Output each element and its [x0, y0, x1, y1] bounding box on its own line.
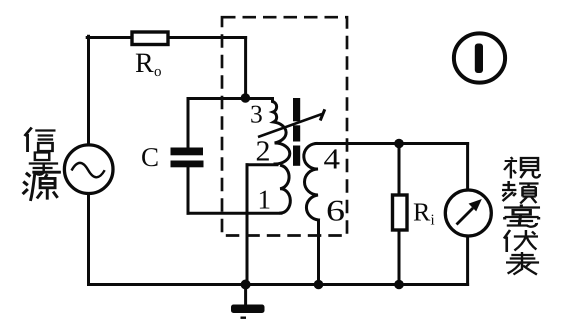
svg-text:R: R	[413, 198, 431, 227]
meter needle arrowhead	[469, 199, 482, 211]
label 频 (pin)	[502, 181, 539, 204]
transformer primary winding upper section (terminals 3 to 2)	[273, 99, 290, 165]
capacitor C top plate	[171, 148, 204, 156]
wire: tap 2 vertical down to ground node	[246, 165, 249, 285]
wire: node A horizontal (C top to primary coil top, terminal 3)	[188, 97, 273, 100]
adjustable core arrow with end bar	[258, 114, 322, 137]
svg-text:3: 3	[250, 100, 263, 129]
wire: meter bottom lead to bottom rail	[466, 236, 469, 285]
wire: top horizontal from left corner to R0	[87, 36, 131, 39]
transformer secondary winding (terminals 4 to 6)	[304, 144, 319, 221]
wire: top horizontal from R0 right to corner above node A	[168, 36, 246, 39]
wire: tap 2 horizontal stub	[247, 163, 277, 166]
label 毫 (hao)	[504, 205, 540, 227]
wire: capacitor C bottom lead	[187, 167, 190, 213]
ground stem	[244, 285, 247, 306]
wire: right vertical from top rail to meter	[466, 144, 469, 191]
signal source AC circle	[64, 145, 113, 194]
svg-text:C: C	[141, 142, 159, 172]
wire: secondary top horizontal (terminal 4) to right side	[316, 142, 468, 145]
meter needle shaft	[457, 208, 474, 225]
dashed shield box around transformer	[222, 17, 347, 235]
resistor Ri	[393, 195, 408, 230]
node A junction dot	[241, 93, 251, 103]
wire: left vertical from top-left corner down to signal source top	[87, 36, 90, 145]
svg-text:1: 1	[257, 185, 271, 215]
label 视 (shi)	[504, 157, 540, 179]
junction dot at Ri bottom	[394, 280, 404, 290]
capacitor C bottom plate	[171, 161, 204, 168]
wire: Ri bottom lead	[398, 230, 401, 285]
svg-text:R: R	[135, 48, 154, 79]
meter circle	[445, 190, 491, 236]
svg-text:o: o	[154, 64, 162, 80]
circled figure number 1	[454, 33, 505, 82]
transformer primary winding lower section (terminal 2 to 1)	[280, 166, 290, 214]
wire: bottom horizontal of LC loop to primary coil bottom (terminal 1)	[188, 212, 281, 215]
node B junction dot	[394, 139, 404, 149]
sine wave inside source	[72, 163, 105, 177]
ground node junction dot	[241, 280, 251, 290]
label 源 (yuan)	[23, 172, 61, 201]
wire: signal source bottom lead	[87, 194, 90, 285]
svg-text:6: 6	[326, 195, 345, 228]
svg-text:i: i	[430, 213, 434, 229]
resistor R0	[132, 32, 168, 45]
wire: capacitor C top lead	[187, 99, 190, 149]
junction dot at secondary bottom	[314, 280, 324, 290]
wire: vertical from top corner down to node A	[244, 38, 247, 99]
svg-text:4: 4	[323, 144, 340, 176]
transformer core (dashed iron core bar)	[293, 98, 300, 121]
wire: bottom rail	[89, 283, 468, 286]
wire: secondary bottom lead (terminal 6) down to bottom rail	[317, 220, 320, 285]
label 信 (xin)	[25, 128, 56, 153]
wire: Ri top lead from node B	[398, 144, 401, 196]
label 表 (biao)	[506, 252, 539, 275]
label 号 (hao)	[29, 153, 58, 175]
svg-text:2: 2	[255, 136, 270, 168]
label 伏 (fu)	[504, 230, 538, 252]
ground bar	[231, 305, 265, 314]
ground small dash	[241, 317, 247, 319]
